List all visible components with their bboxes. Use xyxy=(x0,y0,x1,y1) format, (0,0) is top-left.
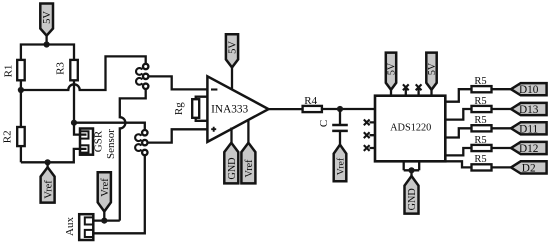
resistor R1 xyxy=(3,60,25,90)
svg-text:Vref: Vref xyxy=(43,180,54,199)
svg-text:R2: R2 xyxy=(2,130,14,143)
flag D10 xyxy=(511,83,547,96)
svg-text:ADS1220: ADS1220 xyxy=(390,123,431,134)
wire ADS pin to row2 xyxy=(445,109,472,120)
svg-text:D2: D2 xyxy=(522,162,536,174)
power flag 5V (ADS pin4) xyxy=(426,53,438,90)
wire R4 to ADS1220 xyxy=(322,108,375,110)
power flag 5V (bridge top) xyxy=(40,4,53,45)
jumper SJ2 pads xyxy=(135,130,147,155)
svg-text:D13: D13 xyxy=(519,104,539,116)
svg-text:INA333: INA333 xyxy=(211,103,248,115)
flag D11 xyxy=(511,122,547,135)
svg-text:R5: R5 xyxy=(474,115,486,126)
flag D12 xyxy=(511,142,547,155)
svg-text:5V: 5V xyxy=(427,62,438,75)
wire top rail xyxy=(21,45,74,60)
svg-text:R5: R5 xyxy=(474,76,486,87)
power flag GND (INA333) xyxy=(224,128,238,184)
jumper SJ1 pads xyxy=(136,64,148,89)
pin stubs ADS left with no-connect X marks xyxy=(370,122,375,148)
wire Aux pin1 xyxy=(93,219,120,221)
pin stubs ADS bottom + GND rail xyxy=(404,161,420,176)
svg-text:GND: GND xyxy=(227,157,238,179)
pin stubs ADS top xyxy=(391,89,432,96)
svg-text:Aux: Aux xyxy=(64,217,76,236)
svg-text:C: C xyxy=(318,120,330,127)
svg-text:Rg: Rg xyxy=(173,102,185,115)
wire ADS corner to row5 xyxy=(445,161,472,167)
svg-text:R5: R5 xyxy=(474,154,486,165)
power flag GND (ADS) xyxy=(405,176,419,214)
power flag Vref (C) xyxy=(334,145,347,182)
power flag Vref (Aux) xyxy=(98,172,111,220)
op-amp U1 INA333 xyxy=(207,76,268,142)
svg-text:GND: GND xyxy=(407,188,418,210)
wire ADS pin to row3 xyxy=(445,128,472,137)
svg-text:Vref: Vref xyxy=(335,157,346,175)
svg-text:Vref: Vref xyxy=(244,159,255,178)
svg-text:D11: D11 xyxy=(519,123,538,135)
no-connect X (top pin 2) xyxy=(403,84,409,90)
wire SJ2 bottom to Aux pin2 xyxy=(93,155,145,233)
resistor R5 (row3) xyxy=(472,115,512,131)
connector Aux xyxy=(64,214,93,240)
resistor R2 xyxy=(2,90,25,162)
resistor Rg (gain) xyxy=(173,97,207,121)
wire mid rail with hop to jumper SJ1 xyxy=(21,56,146,90)
wire SJ1 middle to INA- xyxy=(148,76,208,89)
wire INA output xyxy=(269,108,303,110)
svg-text:Vref: Vref xyxy=(100,178,111,197)
junction dot (Aux / Vref) xyxy=(101,218,107,224)
svg-text:R3: R3 xyxy=(55,62,67,75)
wire ADS pin to row1 xyxy=(445,89,472,102)
power flag 5V (ADS pin1) xyxy=(386,53,398,90)
junction dot (R1 bottom) xyxy=(18,87,24,93)
wire SJ1 bottom to Aux junction (with hop) xyxy=(120,89,146,221)
svg-text:Sensor: Sensor xyxy=(105,129,117,159)
wire ADS pin to row4 xyxy=(445,148,472,155)
svg-text:R5: R5 xyxy=(474,96,486,107)
resistor R4 xyxy=(303,95,322,112)
resistor R5 (row1) xyxy=(472,76,512,92)
resistor R5 (row4) xyxy=(472,135,512,151)
junction dot (C tap) xyxy=(337,106,343,112)
svg-text:5V: 5V xyxy=(386,62,397,75)
svg-text:5V: 5V xyxy=(227,41,238,54)
svg-text:R1: R1 xyxy=(3,65,15,78)
flag D2 xyxy=(511,161,547,174)
junction dot (GND rail) xyxy=(408,167,414,173)
svg-text:GSR: GSR xyxy=(93,130,105,152)
connector GSR Sensor xyxy=(80,129,117,159)
svg-text:D12: D12 xyxy=(519,143,539,155)
IC U2 ADS1220 xyxy=(375,96,445,162)
resistor R3 xyxy=(55,60,78,123)
wire rail to jumper SJ2 top xyxy=(74,123,145,130)
wire (junction to GSR pin1) xyxy=(74,123,87,135)
power flag 5V (INA333) xyxy=(226,34,239,90)
wire bottom rail (R2 to GSR pin2) xyxy=(21,149,87,162)
wire SJ2 middle to INA+ xyxy=(148,129,209,142)
junction dot (5V / top rail) xyxy=(44,41,50,47)
power flag Vref (bridge bottom) xyxy=(41,162,55,202)
junction dot (GSR top tap) xyxy=(71,120,77,126)
flag D13 xyxy=(511,103,547,116)
resistor R5 (row2) xyxy=(472,96,512,112)
junction dot (Vref tap) xyxy=(45,159,51,165)
svg-text:R4: R4 xyxy=(304,95,317,107)
resistor R5 (row5) xyxy=(472,154,512,170)
svg-text:D10: D10 xyxy=(519,84,539,96)
svg-text:5V: 5V xyxy=(42,11,53,24)
power flag Vref (INA333) xyxy=(241,119,255,183)
capacitor C xyxy=(318,109,348,145)
no-connect X (top pin 3) xyxy=(416,84,422,90)
svg-text:R5: R5 xyxy=(474,135,486,146)
